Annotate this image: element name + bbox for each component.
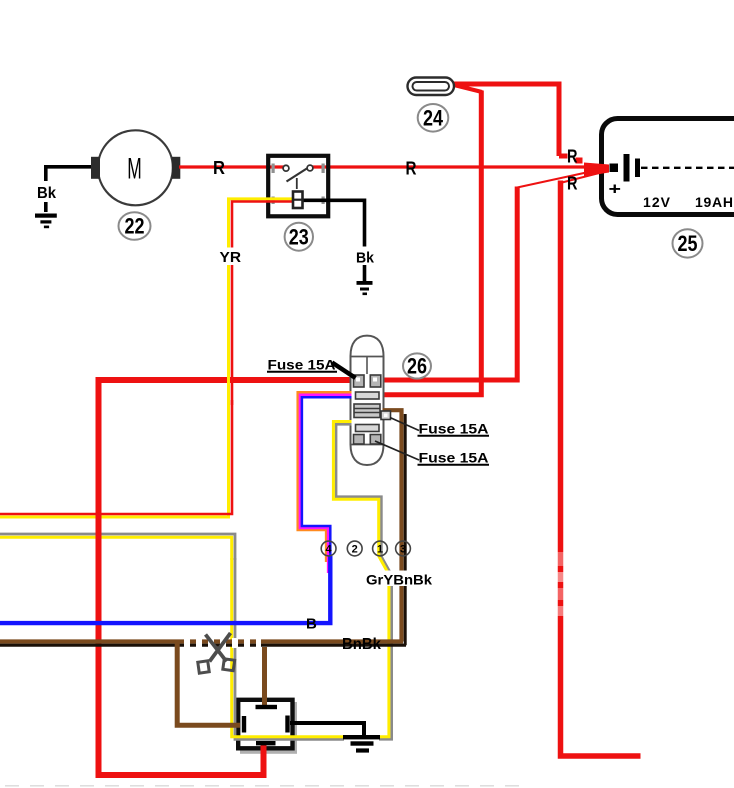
svg-text:19AH: 19AH <box>695 194 733 210</box>
svg-text:4: 4 <box>326 544 333 556</box>
svg-text:Bk: Bk <box>37 185 56 202</box>
svg-text:B: B <box>306 616 317 633</box>
svg-text:22: 22 <box>125 214 145 239</box>
svg-text:GrYBnBk: GrYBnBk <box>366 572 432 588</box>
svg-text:23: 23 <box>289 225 309 250</box>
svg-text:1: 1 <box>377 544 383 556</box>
svg-text:R: R <box>213 158 225 178</box>
svg-text:M: M <box>127 153 142 186</box>
svg-text:24: 24 <box>423 106 444 131</box>
svg-text:2: 2 <box>352 544 358 556</box>
svg-text:R: R <box>567 174 578 194</box>
svg-text:Fuse 15A: Fuse 15A <box>419 421 489 437</box>
svg-text:Fuse 15A: Fuse 15A <box>419 450 489 466</box>
svg-text:Fuse 15A: Fuse 15A <box>268 357 336 373</box>
svg-text:26: 26 <box>407 354 427 379</box>
svg-text:YR: YR <box>220 250 242 266</box>
svg-text:R: R <box>406 159 417 179</box>
svg-text:3: 3 <box>400 544 406 556</box>
svg-text:25: 25 <box>678 231 698 256</box>
svg-text:12V: 12V <box>643 194 671 210</box>
svg-text:BnBk: BnBk <box>342 636 381 653</box>
svg-text:+: + <box>609 180 622 199</box>
svg-text:Bk: Bk <box>356 250 375 267</box>
svg-text:R: R <box>567 147 578 167</box>
